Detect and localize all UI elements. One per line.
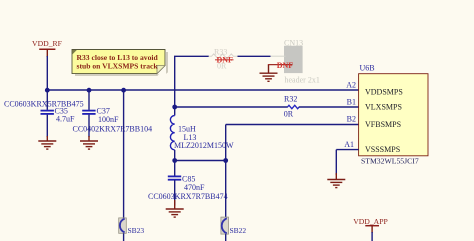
wire SB23 to sheet edge	[123, 233, 125, 241]
resistor R33 (DNF, grayed)	[209, 54, 238, 59]
junction at C37	[87, 88, 92, 93]
svg-text:DNF: DNF	[217, 56, 234, 65]
svg-text:SB22: SB22	[230, 226, 247, 235]
wire VDD_APP to sheet edge	[371, 232, 373, 241]
capacitor C35	[41, 111, 54, 114]
svg-text:STM32WL55JCI7: STM32WL55JCI7	[361, 156, 419, 165]
pin A1 wire to ground	[336, 150, 358, 175]
ground at CN13 pin 2	[260, 65, 278, 81]
wire SB22 to sheet edge	[225, 234, 227, 241]
svg-text:100nF: 100nF	[98, 115, 119, 124]
svg-text:4.7uF: 4.7uF	[56, 115, 75, 124]
svg-text:R32: R32	[284, 95, 297, 104]
svg-text:SB23: SB23	[128, 226, 145, 235]
svg-text:header 2x1: header 2x1	[285, 75, 320, 84]
wire VDD_RF to VDDSMPS bus	[46, 56, 48, 90]
svg-text:CC0603KRX5R7BB475: CC0603KRX5R7BB475	[4, 100, 84, 109]
wire riser to R33	[174, 55, 209, 57]
power port VDD_APP	[353, 217, 388, 233]
resistor R32	[288, 105, 300, 108]
wire C35 to ground	[46, 115, 48, 137]
solder bridge SB22	[221, 217, 229, 234]
wire VLXSMPS line left	[175, 106, 288, 108]
ground below C85	[166, 200, 184, 217]
ground below C37	[80, 136, 98, 149]
svg-text:VLXSMPS: VLXSMPS	[365, 103, 402, 112]
wire R33 to CN13	[238, 55, 271, 57]
svg-text:A2: A2	[346, 81, 356, 90]
IC U6B STM32WL55JCI7	[359, 74, 428, 156]
junction at SB23 branch	[121, 88, 126, 93]
note box	[72, 50, 168, 76]
wire SB22 branch	[225, 161, 227, 218]
wire VDDSMPS bus	[47, 89, 358, 91]
solder bridge SB23	[119, 218, 127, 233]
junction VFB / SB22	[223, 158, 228, 163]
svg-text:470nF: 470nF	[184, 183, 205, 192]
svg-text:CC0402KRX7R7BB104: CC0402KRX7R7BB104	[73, 125, 153, 134]
junction L13 / C85	[172, 158, 177, 163]
wire C85 to ground	[174, 180, 176, 206]
DNF marker for R33	[215, 56, 234, 65]
svg-text:DNF: DNF	[277, 61, 294, 70]
power port VDD_RF	[32, 39, 62, 57]
junction at L13 / riser	[172, 105, 177, 110]
wire bus to SB23	[123, 90, 125, 218]
wire R32 to pin B1	[299, 106, 359, 108]
wire C37 to ground	[88, 115, 90, 137]
capacitor C85	[168, 176, 181, 179]
ground below VSSSMPS	[327, 173, 345, 188]
svg-text:VDD_APP: VDD_APP	[353, 217, 388, 226]
wire bus to C37	[88, 90, 90, 110]
wire C85	[174, 161, 176, 176]
svg-text:B2: B2	[347, 115, 356, 124]
capacitor C37	[82, 111, 95, 114]
svg-text:CC0603KRX7R7BB474: CC0603KRX7R7BB474	[148, 192, 228, 201]
DNF marker for CN13	[268, 61, 293, 70]
svg-text:VFBSMPS: VFBSMPS	[365, 120, 401, 129]
svg-text:A1: A1	[344, 140, 354, 149]
wire bus to C35	[46, 90, 48, 110]
ground below C35	[38, 136, 56, 149]
junction at VDD_RF / C35	[45, 88, 50, 93]
inductor L13	[170, 107, 174, 161]
svg-text:stub on VLXSMPS track: stub on VLXSMPS track	[77, 62, 159, 71]
svg-text:B1: B1	[347, 98, 356, 107]
header CN13 (DNF, grayed)	[271, 38, 320, 84]
wire VFBSMPS line	[226, 125, 359, 161]
svg-text:0R: 0R	[284, 109, 294, 118]
svg-text:U6B: U6B	[360, 64, 375, 73]
wire L13 to VFB corner	[175, 160, 226, 162]
svg-text:VDD_RF: VDD_RF	[32, 39, 62, 48]
svg-text:VDDSMPS: VDDSMPS	[365, 88, 403, 97]
svg-text:VSSSMPS: VSSSMPS	[365, 145, 400, 154]
wire VLX vertical riser	[174, 56, 176, 107]
